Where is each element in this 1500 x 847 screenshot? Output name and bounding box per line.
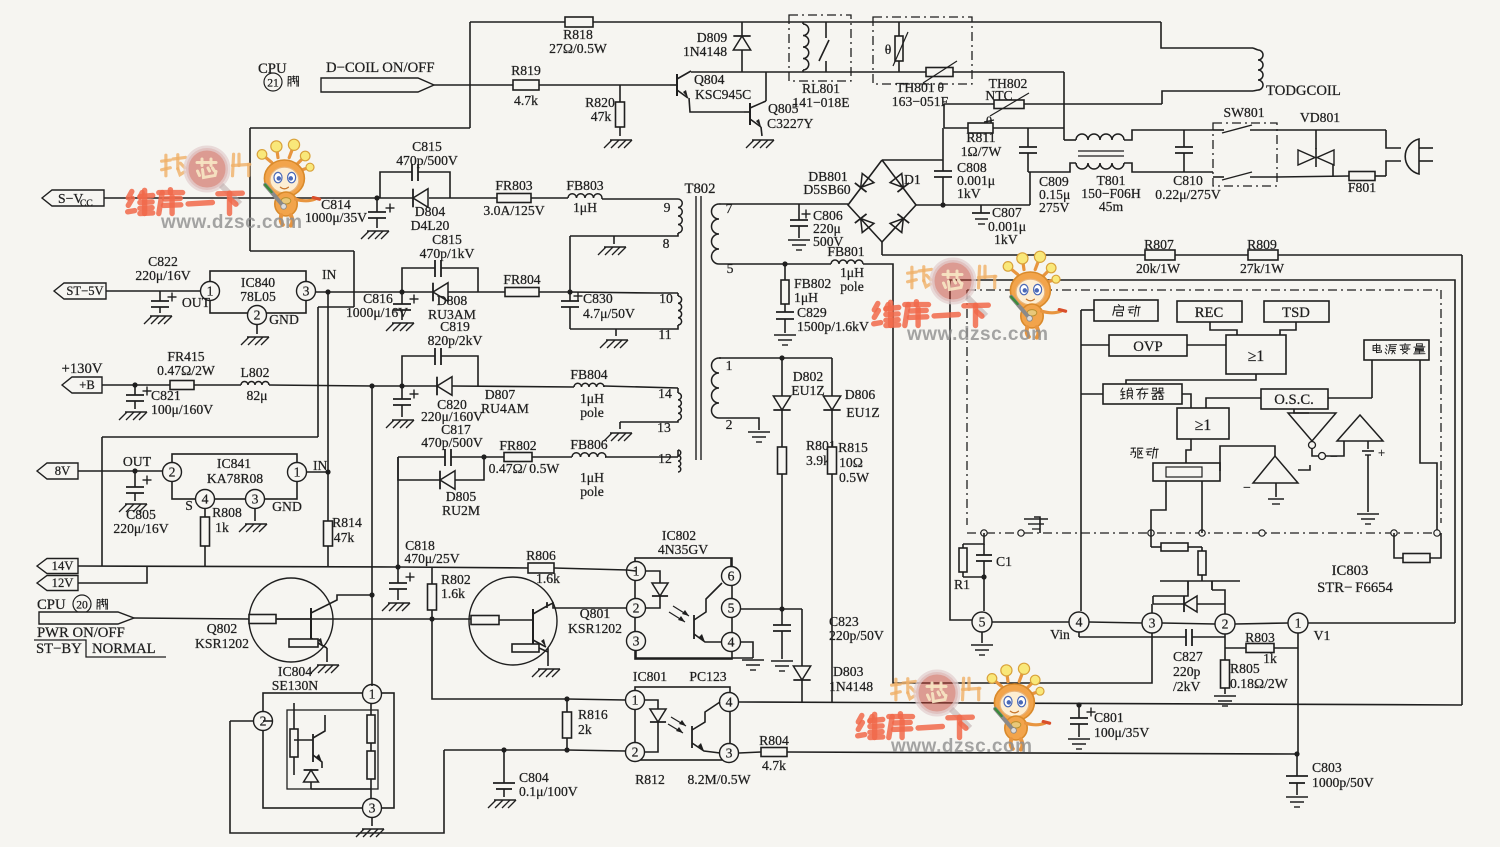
- label IC804 under Q802: [195, 621, 318, 693]
- pin IC801-4: [720, 693, 739, 712]
- svg-text:14: 14: [658, 386, 672, 401]
- wire IN net vertical: [325, 289, 330, 472]
- label IC803: [1317, 563, 1393, 596]
- svg-text:R811: R811: [966, 130, 995, 145]
- pin IC802-1: [627, 562, 646, 581]
- label T801: [1081, 173, 1141, 214]
- svg-text:TSD: TSD: [1282, 305, 1310, 321]
- rectifier DB801 bridge: [848, 160, 916, 242]
- wire bridge AC2: [916, 172, 1030, 208]
- svg-text:R804: R804: [759, 733, 789, 748]
- svg-text:IN: IN: [322, 267, 337, 282]
- svg-text:220p: 220p: [1173, 664, 1201, 679]
- svg-text:Q804: Q804: [694, 72, 725, 87]
- capacitor C814: [368, 198, 395, 228]
- transistor Q804: [670, 71, 691, 98]
- wire R818 to RL801/TH801 rail: [593, 21, 1161, 23]
- svg-text:2: 2: [169, 465, 176, 480]
- label VD801: [1300, 110, 1340, 125]
- phototransistor IC802: [669, 583, 722, 642]
- ground under C822: [144, 316, 172, 324]
- svg-text:2: 2: [254, 308, 261, 323]
- wire C1 to pin5: [983, 577, 985, 611]
- block REC: [1177, 301, 1242, 322]
- wire pin5 to FB801: [719, 261, 831, 266]
- svg-text:C801: C801: [1094, 710, 1124, 725]
- svg-text:C815: C815: [412, 139, 442, 154]
- svg-text:1000μ/35V: 1000μ/35V: [305, 210, 367, 225]
- IC803 dashed border: [967, 290, 1441, 525]
- svg-text:1000μ/16V: 1000μ/16V: [346, 305, 408, 320]
- node CPU pin21 label: [258, 61, 298, 91]
- label C821: [151, 388, 213, 417]
- wire 锁存器 to OR2: [1182, 394, 1191, 408]
- svg-text:SW801: SW801: [1223, 105, 1264, 120]
- diode D805 loop: [398, 454, 487, 489]
- capacitor C806: [790, 204, 811, 238]
- diode D809: [683, 22, 751, 72]
- wire TH801 to node: [953, 71, 1064, 73]
- label Q804: [694, 72, 751, 102]
- label C820: [421, 397, 483, 424]
- wire NTC left down: [943, 104, 945, 128]
- inductor TODGCOIL: [1253, 48, 1263, 91]
- wire 14V rail: [78, 564, 627, 570]
- svg-text:1: 1: [294, 465, 301, 480]
- label C814: [305, 197, 367, 225]
- wire pin1 feedback: [719, 355, 832, 360]
- wire pin row: [992, 622, 1455, 624]
- label C807: [988, 205, 1026, 247]
- svg-text:IC801: IC801: [633, 669, 667, 684]
- switch SW801 box: [1213, 123, 1277, 186]
- transformer T802 winding 1-2: [712, 358, 733, 432]
- svg-text:PWR ON/OFF: PWR ON/OFF: [37, 625, 125, 641]
- svg-text:1: 1: [369, 687, 376, 702]
- svg-text:SE130N: SE130N: [272, 678, 319, 693]
- wire D-COIL net down: [102, 85, 470, 566]
- capacitor C822: [151, 291, 177, 313]
- wire Vin line C827: [1079, 636, 1225, 638]
- thermistor TH801 element: [885, 22, 908, 72]
- wire IC801 pin3 line: [739, 752, 761, 753]
- wire R802 down to IC801 pin1 line: [432, 619, 625, 702]
- svg-text:141−018E: 141−018E: [792, 95, 849, 110]
- wire D-COIL to R819: [434, 84, 513, 86]
- ground on bus: [1024, 517, 1048, 533]
- mosfet IC803: [1153, 581, 1240, 614]
- transistor Q802: [249, 578, 375, 662]
- svg-text:TH801 θ: TH801 θ: [896, 80, 944, 95]
- thermistor TH801 box: [873, 17, 972, 84]
- svg-text:FR804: FR804: [503, 272, 540, 287]
- svg-text:10Ω: 10Ω: [839, 455, 863, 470]
- IC803 left bus: [1081, 310, 1109, 611]
- shunt regulator IC804 box: [263, 693, 394, 808]
- block OVP: [1109, 335, 1187, 356]
- pin IC802-3: [627, 632, 646, 651]
- resistor R807: [1136, 237, 1180, 276]
- svg-text:Q801: Q801: [580, 606, 611, 621]
- node PWR ON/OFF flag: [37, 612, 134, 641]
- label C829: [797, 305, 869, 334]
- pin IC802-6: [722, 567, 741, 586]
- svg-text:RU2M: RU2M: [442, 503, 480, 518]
- resistor R820: [585, 85, 624, 136]
- relay RL801 coil: [803, 22, 809, 72]
- label TH802 NTC: [985, 76, 1027, 129]
- pin IC841-1: [288, 458, 328, 482]
- svg-text:27k/1W: 27k/1W: [1240, 261, 1284, 276]
- resistor R814: [324, 472, 362, 566]
- svg-text:REC: REC: [1195, 305, 1224, 321]
- mosfet body diode: [1153, 596, 1225, 612]
- relay RL801 box: [789, 15, 851, 81]
- svg-text:C827: C827: [1173, 649, 1203, 664]
- wire IC802 pin6 up: [730, 558, 732, 567]
- ground under C829: [774, 335, 796, 345]
- wire pin2 stub: [1224, 634, 1226, 648]
- svg-text:1μH: 1μH: [840, 265, 864, 280]
- svg-text:0.22μ/275V: 0.22μ/275V: [1155, 187, 1221, 202]
- svg-text:/2kV: /2kV: [1173, 679, 1200, 694]
- svg-text:8.2M/0.5W: 8.2M/0.5W: [687, 772, 750, 787]
- svg-text:3: 3: [252, 492, 259, 507]
- wire pin2 bottom line: [444, 747, 625, 752]
- svg-text:www.dzsc.com: www.dzsc.com: [890, 736, 1033, 757]
- svg-text:3: 3: [633, 634, 640, 649]
- svg-text:FB802: FB802: [794, 276, 831, 291]
- svg-text:TODGCOIL: TODGCOIL: [1266, 83, 1341, 99]
- svg-text:C803: C803: [1312, 760, 1342, 775]
- pin IC840-2: [248, 306, 299, 328]
- resistor drive R a: [1151, 533, 1202, 551]
- svg-text:R809: R809: [1247, 237, 1277, 252]
- wire 8V line: [78, 454, 162, 474]
- wire node x1064: [1063, 72, 1065, 140]
- svg-text:KA78R08: KA78R08: [207, 471, 263, 486]
- svg-text:3: 3: [726, 746, 733, 761]
- label C808: [957, 160, 995, 201]
- svg-text:RU4AM: RU4AM: [481, 401, 529, 416]
- wire IC802 pin3 ground: [636, 651, 753, 658]
- svg-text:3: 3: [303, 284, 310, 299]
- IC804 internals: [290, 703, 375, 798]
- resistor R801: [778, 438, 836, 609]
- capacitor C810: [1175, 130, 1193, 172]
- svg-text:45m: 45m: [1099, 199, 1124, 214]
- svg-text:pole: pole: [580, 484, 604, 499]
- pin IC803-2: [1215, 614, 1235, 634]
- block 启动: [1094, 300, 1158, 321]
- svg-text:100μ/35V: 100μ/35V: [1094, 725, 1149, 740]
- svg-text:CC: CC: [80, 199, 93, 209]
- comparator B ground: [1268, 465, 1310, 504]
- inductor FB802: [781, 264, 831, 312]
- wire +B sense drop: [371, 386, 373, 686]
- wire top rail: [470, 21, 565, 23]
- svg-text:10: 10: [659, 291, 673, 306]
- svg-text:IC840: IC840: [241, 275, 275, 290]
- svg-text:9: 9: [664, 200, 671, 215]
- fuse FR803: [483, 178, 544, 218]
- svg-text:R1: R1: [954, 577, 970, 592]
- flag ST-5V: [54, 283, 106, 299]
- label C801: [1094, 710, 1149, 740]
- node CPU pin20 label: [37, 595, 107, 613]
- capacitor C816: [393, 292, 419, 320]
- resistor R816: [563, 699, 608, 750]
- capacitor C815a loop: [380, 164, 450, 198]
- wire SW801 to plug top: [1277, 129, 1386, 131]
- wire NTC line: [944, 103, 1162, 105]
- svg-text:220μ/16V: 220μ/16V: [113, 521, 168, 536]
- svg-text:KSR1202: KSR1202: [568, 621, 622, 636]
- svg-text:D5SB60: D5SB60: [803, 182, 850, 197]
- ground on pin13: [604, 422, 632, 441]
- wire comparator B out: [1220, 446, 1275, 471]
- svg-text:1μH: 1μH: [794, 290, 818, 305]
- svg-text:STR− F6654: STR− F6654: [1317, 580, 1393, 596]
- transistor Q805: [744, 72, 766, 127]
- svg-text:KSR1202: KSR1202: [195, 636, 249, 651]
- block 驱动: [1153, 463, 1220, 481]
- node minus circle: [1312, 441, 1344, 464]
- svg-text:R819: R819: [511, 63, 541, 78]
- svg-text:−: −: [1243, 480, 1251, 495]
- block 锁存器: [1103, 384, 1182, 404]
- svg-text:C815: C815: [432, 232, 462, 247]
- svg-text:2k: 2k: [578, 722, 592, 737]
- svg-text:ST−5V: ST−5V: [66, 284, 103, 298]
- fuse FR804: [503, 272, 540, 297]
- svg-text:IN: IN: [313, 458, 328, 473]
- wire pin8 to FR804 node: [569, 236, 571, 293]
- choke T801 top winding: [1064, 130, 1213, 140]
- wire 12V join: [78, 566, 147, 583]
- svg-text:RL801: RL801: [802, 81, 840, 96]
- capacitor C830: [561, 292, 583, 330]
- svg-text:R814: R814: [332, 515, 362, 530]
- diode D806: [823, 358, 879, 447]
- pin IC802-2: [627, 599, 646, 618]
- inductor FB803: [566, 178, 603, 215]
- svg-text:D807: D807: [485, 387, 516, 402]
- pin IC841-3: [246, 490, 302, 515]
- pin IC801-1: [626, 691, 645, 710]
- fuse F801: [1348, 172, 1386, 196]
- pin IC801-2: [626, 743, 645, 762]
- wire Q804 collector rail: [691, 71, 926, 73]
- pin IC803-4: [1050, 612, 1089, 642]
- svg-text:D803: D803: [833, 664, 864, 679]
- wire 驱动 to bus left: [1151, 481, 1166, 533]
- svg-text:FB804: FB804: [570, 367, 607, 382]
- svg-text:OUT: OUT: [182, 295, 211, 310]
- svg-text:GND: GND: [269, 312, 299, 327]
- capacitor C804: [493, 750, 515, 797]
- capacitor C821: [126, 385, 152, 409]
- capacitor C801: [1070, 702, 1096, 737]
- svg-text:L802: L802: [241, 365, 270, 380]
- pin IC804-1: [363, 685, 382, 704]
- comparator A: [1337, 415, 1383, 441]
- svg-text:C805: C805: [126, 507, 156, 522]
- resistor R818: [549, 17, 607, 56]
- ground under C814: [361, 231, 389, 239]
- svg-text:R816: R816: [578, 707, 608, 722]
- svg-text:1500p/1.6kV: 1500p/1.6kV: [797, 319, 869, 334]
- svg-text:78L05: 78L05: [240, 289, 276, 304]
- svg-text:12V: 12V: [52, 576, 74, 590]
- svg-text:220μ/16V: 220μ/16V: [135, 268, 190, 283]
- resistor R809: [1240, 237, 1284, 276]
- wire R811 to T801: [993, 127, 1064, 129]
- svg-text:R818: R818: [563, 27, 593, 42]
- svg-text:R806: R806: [526, 548, 556, 563]
- capacitor C808: [934, 128, 952, 205]
- pin IC802-5: [722, 599, 741, 618]
- svg-text:C3227Y: C3227Y: [767, 116, 814, 131]
- svg-text:C819: C819: [440, 319, 470, 334]
- block 电源变量: [1364, 340, 1429, 360]
- svg-text:CPU: CPU: [37, 597, 66, 613]
- thermistor TH802 NTC: [984, 93, 1029, 122]
- inductor L802: [241, 365, 270, 403]
- svg-text:V1: V1: [1314, 628, 1331, 643]
- svg-text:2: 2: [726, 417, 733, 432]
- pin IC841-4: [185, 490, 214, 514]
- ground under C816: [386, 323, 414, 331]
- svg-text:3.0A/125V: 3.0A/125V: [483, 203, 544, 218]
- svg-text:163−051F: 163−051F: [892, 94, 949, 109]
- svg-text:EU1Z: EU1Z: [791, 383, 824, 398]
- triac VD801: [1298, 130, 1334, 176]
- inductor FB806: [570, 437, 607, 499]
- diode D802: [773, 358, 824, 447]
- svg-text:IC803: IC803: [1332, 563, 1369, 579]
- diode D807: [437, 377, 529, 416]
- svg-text:82μ: 82μ: [246, 388, 267, 403]
- wire IC840 gnd: [256, 324, 258, 334]
- capacitor C815b loop: [402, 260, 478, 292]
- wire T802 pin7 to bridge: [721, 203, 848, 205]
- svg-text:θ: θ: [885, 42, 892, 57]
- optocoupler IC802 box: [635, 528, 732, 659]
- svg-text:470μ/25V: 470μ/25V: [404, 551, 459, 566]
- transformer T802 winding 10-11: [616, 291, 682, 342]
- svg-text:C810: C810: [1173, 173, 1203, 188]
- svg-text:1Ω/7W: 1Ω/7W: [961, 144, 1002, 159]
- svg-text:1: 1: [1295, 616, 1302, 631]
- svg-text:1μH: 1μH: [580, 470, 604, 485]
- svg-text:2: 2: [633, 601, 640, 616]
- svg-text:R820: R820: [585, 95, 615, 110]
- svg-text:0.47Ω/2W: 0.47Ω/2W: [157, 363, 215, 378]
- svg-text:1k: 1k: [215, 520, 229, 535]
- svg-text:20: 20: [76, 599, 88, 612]
- svg-text:≥1: ≥1: [1248, 348, 1265, 365]
- inverter triangle: [1288, 413, 1336, 449]
- label C804: [519, 770, 578, 799]
- capacitor C823: [773, 609, 791, 659]
- ground under Q801: [532, 669, 560, 677]
- svg-text:R803: R803: [1245, 630, 1275, 645]
- svg-text:20k/1W: 20k/1W: [1136, 261, 1180, 276]
- capacitor C807: [972, 205, 990, 224]
- capacitor C817: [421, 422, 483, 466]
- svg-text:C823: C823: [829, 614, 859, 629]
- transformer T802 winding 14-13: [604, 386, 681, 435]
- wire REC to OR1: [1210, 322, 1237, 335]
- pin IC803-3: [1142, 613, 1162, 633]
- svg-text:D805: D805: [446, 489, 477, 504]
- label C822: [135, 254, 190, 283]
- svg-text:1kV: 1kV: [957, 186, 981, 201]
- ground under C804: [488, 800, 516, 808]
- plug P801: [1386, 130, 1433, 176]
- wire D805 output down: [397, 457, 399, 567]
- transformer T802 winding 9-8: [570, 199, 682, 251]
- label C805: [113, 507, 168, 536]
- svg-text:1N4148: 1N4148: [683, 44, 727, 59]
- resistor R808: [201, 505, 242, 566]
- pin IC803-1: [1288, 613, 1331, 643]
- svg-text:47k: 47k: [591, 109, 612, 124]
- resistor R819: [511, 63, 541, 108]
- wire pin4 stub: [1078, 632, 1080, 637]
- label C830: [583, 291, 635, 321]
- capacitor C818: [389, 567, 415, 600]
- svg-text:0.47Ω/ 0.5W: 0.47Ω/ 0.5W: [489, 461, 560, 476]
- bus node at 984: [981, 530, 987, 536]
- wire IC802 pin1 to rail: [627, 570, 636, 571]
- wire IC840 pin3 line: [315, 289, 655, 294]
- flag 14V: [37, 559, 78, 574]
- pin IC804-2: [254, 712, 273, 731]
- wire Q805 emitter to ground: [761, 127, 762, 136]
- svg-text:FR415: FR415: [167, 349, 204, 364]
- block OR2: [1177, 408, 1229, 439]
- svg-text:4.7k: 4.7k: [514, 93, 538, 108]
- bus node at 1202: [1199, 530, 1205, 536]
- wire 14V rect line: [398, 456, 606, 458]
- svg-text:S: S: [185, 498, 193, 513]
- wire top feed vertical: [469, 22, 471, 85]
- flag 12V: [37, 576, 78, 591]
- wire IC804 pin1: [371, 684, 373, 686]
- regulator IC840 box: [210, 271, 306, 313]
- pin IC801-3: [720, 744, 739, 763]
- svg-text:VD801: VD801: [1300, 110, 1340, 125]
- svg-text:GND: GND: [272, 499, 302, 514]
- bus node at 1021: [1018, 530, 1024, 536]
- svg-text:820p/2kV: 820p/2kV: [428, 333, 483, 348]
- svg-text:D−COIL ON/OFF: D−COIL ON/OFF: [326, 60, 435, 76]
- wire IC801 pin4 to hot rail: [739, 702, 1462, 705]
- resistor R815: [828, 440, 870, 703]
- wire V1 inner frame: [950, 280, 1455, 623]
- wire 驱动 to bus right: [1201, 481, 1203, 533]
- wire OVP to OR1: [1187, 344, 1226, 346]
- svg-text:4: 4: [1076, 615, 1083, 630]
- svg-text:275V: 275V: [1039, 200, 1070, 215]
- capacitor C820: [393, 386, 419, 417]
- svg-text:D1: D1: [904, 172, 921, 187]
- label Q805: [767, 101, 814, 131]
- diode D804: [411, 189, 450, 233]
- wire R819 to Q804 base: [539, 84, 670, 86]
